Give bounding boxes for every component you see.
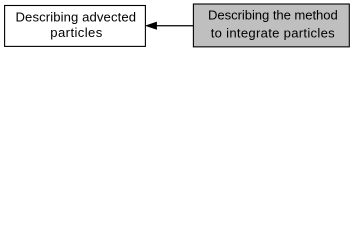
node: Describing the method to integrate particles	[193, 4, 349, 47]
svg-text:Describing advected: Describing advected	[16, 9, 137, 24]
svg-text:particles: particles	[50, 25, 102, 40]
node: Describing advected particles	[5, 6, 146, 47]
arrowhead	[146, 22, 157, 29]
svg-text:to integrate particles: to integrate particles	[211, 25, 335, 40]
wire: dependency edge	[146, 22, 194, 29]
svg-text:Describing the method: Describing the method	[208, 7, 338, 22]
